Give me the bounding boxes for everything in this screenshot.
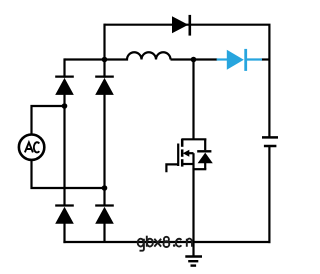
wire D6 cathode lead (cyan): [246, 58, 262, 60]
Q1 body diode anode bus: [193, 168, 207, 170]
wire inductor node to boost diode D6: [171, 58, 218, 60]
ground bar 1: [185, 255, 202, 257]
AC source label letter C: [34, 142, 39, 152]
watermark letter b: [146, 236, 148, 247]
wire ground lead: [192, 242, 194, 256]
inductor L1: [105, 52, 171, 59]
Q1 channel segment drain: [181, 139, 184, 147]
AC source label letter A: [25, 142, 33, 152]
C1 top plate: [262, 136, 278, 139]
Q1 body arrow line: [185, 152, 194, 154]
watermark letter n: [187, 239, 192, 247]
AC source V1: [19, 135, 44, 160]
diode D5 bypass (top): [172, 15, 190, 36]
wire left column bottom (D3 anode to bottom rail): [63, 223, 65, 243]
watermark letter x: [154, 239, 161, 247]
Q1 source connection: [182, 163, 193, 165]
wire D6 anode lead (cyan): [217, 58, 228, 60]
ground bar 2: [188, 260, 198, 262]
C1 bottom plate: [264, 145, 277, 148]
capacitor C1: [262, 137, 278, 146]
diode D3 bridge bottom-left: [55, 206, 74, 224]
node: boost switch junction: [191, 57, 197, 63]
wire AC hot lead to node A: [32, 106, 65, 135]
wire bridge top connector: [65, 58, 105, 60]
watermark letter g: [140, 239, 144, 251]
Q1 channel segment body: [181, 149, 184, 156]
wire MOSFET source to bottom rail: [192, 169, 194, 243]
wire top rail and upper right rail: [105, 25, 270, 137]
watermark period: [173, 244, 176, 247]
Q1 body diode anode lead: [204, 163, 206, 169]
wire bottom rail: [63, 241, 270, 243]
node B: AC return to bridge: [102, 185, 108, 191]
watermark digit 8: [164, 237, 169, 242]
diode D4 bridge bottom-right: [95, 206, 114, 224]
watermark gbx8.cn: [138, 236, 192, 251]
wire inductor node down to D2 cathode: [103, 60, 105, 78]
Q1 body arrow head: [183, 150, 190, 157]
node: inductor input junction: [102, 57, 108, 63]
watermark letter c: [176, 239, 182, 247]
Q1 drain bus: [182, 138, 207, 140]
wire riser from top rail to inductor node: [103, 24, 105, 60]
ground: [185, 257, 202, 266]
Q1 source trunk: [192, 153, 194, 169]
transistor Q1 N-MOSFET: [166, 139, 212, 173]
wire right column middle (D2 anode to D4 cathode): [103, 94, 105, 207]
wire right rail below capacitor C1: [268, 147, 270, 243]
Q1 gate lead: [166, 164, 178, 172]
Q1 body diode cathode bar: [197, 150, 211, 152]
Q1 channel segment source: [181, 159, 184, 166]
wire right column bottom (D4 anode to bottom rail): [103, 223, 105, 242]
Q1 body diode cathode lead: [204, 139, 206, 151]
wire boost diode D6 cathode to output rail: [261, 58, 270, 60]
wire D1 cathode stub: [63, 58, 65, 77]
wire left column middle (D1 anode to D3 cathode): [63, 94, 65, 207]
diode D6 boost (cyan): [217, 49, 262, 71]
diode D6 cathode bar: [244, 49, 247, 71]
Q1 body diode triangle: [198, 153, 213, 164]
wire MOSFET drain to inductor node: [192, 60, 194, 140]
Q1 gate bar: [177, 144, 179, 167]
diode D1 bridge top-left: [55, 77, 74, 95]
ground bar 3: [191, 264, 197, 266]
diode D2 bridge top-right: [95, 77, 114, 95]
wire AC return lead to node B: [32, 160, 105, 188]
node A: AC hot to bridge: [62, 103, 68, 109]
diode D6 body: [227, 50, 244, 70]
